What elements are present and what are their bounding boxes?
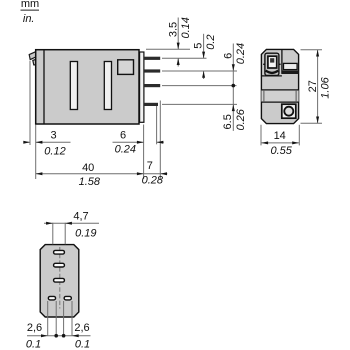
svg-text:0.19: 0.19	[75, 228, 96, 240]
dimension 4,7/0.19	[44, 211, 99, 245]
svg-text:27: 27	[307, 80, 319, 92]
extension line: body right/socket face	[143, 125, 145, 180]
side view: slot 1	[70, 62, 77, 110]
dimension 6/0.24 (pin pitch) and 6.5/0.26	[222, 43, 247, 131]
svg-text:3: 3	[50, 129, 56, 141]
svg-text:0.24: 0.24	[235, 43, 247, 64]
svg-text:3.5: 3.5	[167, 22, 179, 37]
dimension 2,6/0.1 left and right	[26, 301, 91, 350]
svg-text:0.26: 0.26	[235, 108, 247, 130]
extension line: clip left	[29, 61, 31, 145]
pin 3	[144, 84, 160, 87]
dimension 3.5/0.14	[167, 17, 192, 66]
bottom view: pin slot A	[54, 250, 65, 254]
svg-text:2,6: 2,6	[74, 322, 89, 334]
dimension 40/1.58	[36, 162, 144, 188]
svg-text:7: 7	[147, 160, 153, 172]
svg-text:mm: mm	[21, 0, 39, 10]
dimension 3/0.12	[23, 129, 70, 157]
svg-text:0.14: 0.14	[180, 17, 192, 38]
front view: line under latch	[261, 75, 282, 77]
extension line: body top right	[146, 48, 190, 50]
svg-text:0.1: 0.1	[26, 339, 41, 350]
svg-text:14: 14	[274, 130, 286, 142]
extension line: pin 4	[162, 103, 237, 105]
svg-text:6.5: 6.5	[222, 114, 234, 129]
svg-text:2,6: 2,6	[27, 322, 42, 334]
bottom view: pin slot B	[54, 263, 65, 267]
side view: slot 2	[104, 62, 111, 110]
dimension 5/0.2	[193, 34, 218, 79]
bottom view: pin slot E	[64, 296, 71, 300]
svg-text:40: 40	[82, 162, 94, 174]
pin 1	[144, 57, 160, 60]
svg-text:0.1: 0.1	[75, 339, 90, 350]
extension line: pin 1	[162, 57, 207, 59]
svg-text:6: 6	[222, 53, 234, 59]
bottom view: pin slot C	[54, 278, 65, 282]
extension line: pin usable end	[156, 106, 158, 144]
svg-text:0.24: 0.24	[115, 143, 136, 155]
side view: relay body	[36, 50, 139, 124]
bottom view: relay base	[40, 245, 79, 317]
svg-text:6: 6	[120, 129, 126, 141]
front view: middle band	[261, 90, 298, 102]
dimension 6/0.24 (pin length)	[113, 129, 164, 155]
dimension 7/0.28	[142, 160, 168, 186]
pin 2	[144, 69, 160, 72]
svg-text:1.06: 1.06	[319, 76, 331, 98]
svg-text:0.2: 0.2	[205, 34, 217, 49]
dimension 27/1.06	[301, 50, 332, 123]
units label mm/in.	[21, 0, 40, 25]
svg-text:5: 5	[193, 43, 205, 49]
svg-text:1.58: 1.58	[79, 176, 101, 188]
bottom view: centerline	[59, 247, 61, 309]
svg-text:0.28: 0.28	[142, 174, 164, 186]
pin 4	[144, 103, 158, 106]
front view: top divider line	[281, 49, 283, 74]
front view: relay body (right view)	[261, 49, 298, 123]
extension line: body left	[35, 125, 37, 180]
dimension 14/0.55	[261, 125, 299, 157]
bottom view: pin slot D	[48, 296, 55, 300]
extension line: pin 3	[162, 85, 237, 87]
side view: small square marking	[118, 60, 134, 75]
extension line: pin 2	[162, 70, 237, 72]
front view: latch	[263, 53, 280, 75]
front view: top-right bar	[282, 63, 299, 74]
front view: test button square with circle	[282, 104, 296, 118]
svg-text:0.12: 0.12	[44, 145, 65, 157]
side view: socket face strip	[140, 52, 144, 122]
side view: mounting clip top-left	[29, 52, 36, 65]
extension line: pin tip	[159, 101, 161, 180]
svg-text:in.: in.	[23, 13, 35, 25]
svg-text:0.55: 0.55	[270, 145, 292, 157]
svg-text:4,7: 4,7	[73, 211, 88, 223]
